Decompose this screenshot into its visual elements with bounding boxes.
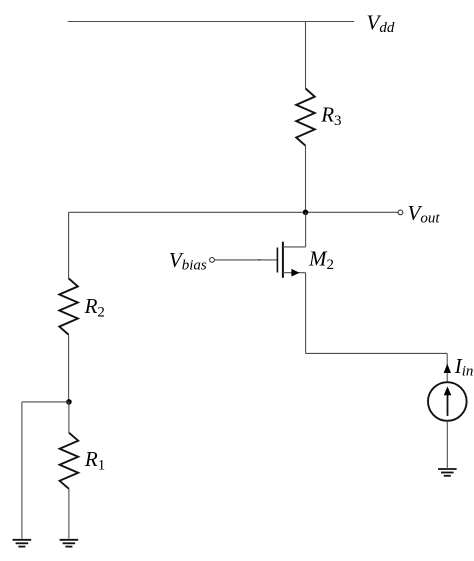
wire Vdd rail	[68, 21, 355, 23]
wire source down	[305, 273, 307, 354]
arrow Iin current direction	[444, 364, 451, 373]
wire drain to node A	[305, 212, 307, 247]
transistor M2 drain lead	[283, 246, 306, 248]
wire left branch down to R2	[68, 212, 70, 278]
wire node A to Vout terminal	[306, 211, 398, 213]
transistor M2 gate bar	[276, 248, 278, 273]
wire R2 to node B	[68, 335, 70, 402]
resistor R1	[60, 433, 79, 489]
node A junction dot	[303, 210, 309, 216]
svg-text:M2: M2	[308, 246, 334, 273]
wire source to current source	[306, 352, 448, 354]
terminal Vout open circle	[398, 210, 403, 215]
wire R3 to node A	[305, 146, 307, 213]
node B junction dot	[66, 399, 72, 405]
transistor M2 source arrow	[291, 269, 299, 277]
wire Vbias to gate	[215, 259, 277, 261]
wire down to current source	[446, 353, 448, 382]
current source arrow head	[444, 386, 452, 395]
resistor R2	[59, 278, 78, 334]
svg-text:Vbias: Vbias	[169, 248, 207, 274]
terminal Vbias open circle	[210, 258, 215, 263]
wire R1 to ground	[68, 489, 70, 539]
wire node B to left ground branch	[22, 401, 69, 403]
wire node A to left branch	[69, 211, 306, 213]
ground left	[13, 540, 32, 547]
wire left ground drop	[21, 402, 23, 539]
resistor R3	[296, 89, 315, 146]
svg-text:Iin: Iin	[454, 354, 474, 380]
svg-text:Vdd: Vdd	[367, 10, 395, 36]
ground right	[438, 469, 457, 476]
ground middle	[60, 540, 79, 547]
svg-text:R3: R3	[320, 103, 341, 130]
current source arrow shaft	[447, 395, 449, 416]
transistor M2 channel bar	[282, 242, 284, 278]
svg-text:R2: R2	[84, 294, 105, 321]
current source Iin circle	[428, 382, 467, 421]
wire current source to ground	[446, 421, 448, 468]
transistor M2 source lead	[283, 272, 306, 274]
wire Vdd to R3	[305, 22, 307, 89]
wire node B to R1	[68, 402, 70, 433]
svg-text:R1: R1	[84, 447, 105, 474]
wire joint dot on Vbias lead	[258, 259, 260, 261]
svg-text:Vout: Vout	[408, 201, 441, 227]
